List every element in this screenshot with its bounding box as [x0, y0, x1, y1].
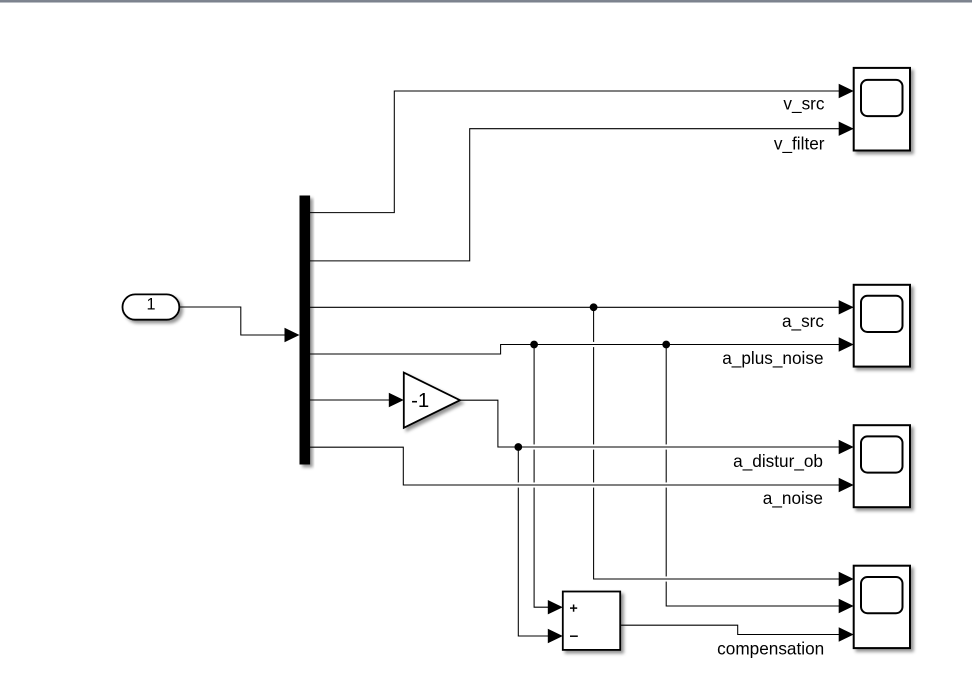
svg-text:1: 1 — [146, 295, 155, 313]
svg-text:-1: -1 — [411, 390, 429, 412]
svg-text:v_filter: v_filter — [774, 133, 825, 153]
svg-text:a_noise: a_noise — [763, 488, 823, 508]
svg-text:compensation: compensation — [717, 639, 824, 659]
svg-text:v_src: v_src — [783, 94, 824, 114]
svg-text:a_distur_ob: a_distur_ob — [733, 451, 823, 471]
svg-text:a_plus_noise: a_plus_noise — [722, 348, 823, 368]
svg-text:a_src: a_src — [782, 311, 824, 331]
